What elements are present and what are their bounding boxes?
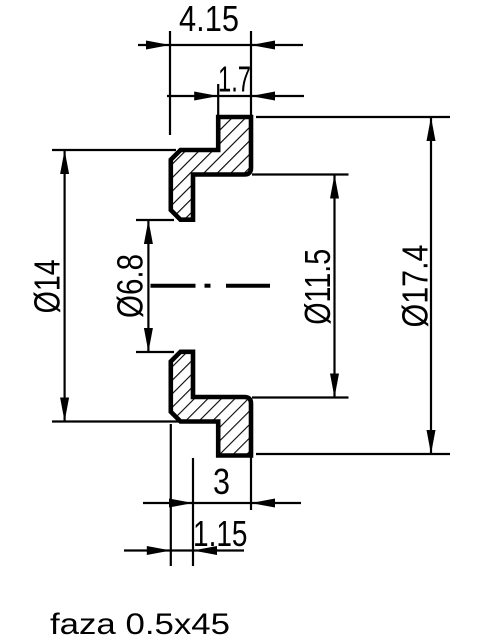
arrow phi14 up <box>60 150 69 174</box>
arrow 4.15 right <box>251 41 275 50</box>
arrow phi17.4 up <box>427 117 436 141</box>
svg-text:Ø14: Ø14 <box>27 259 68 313</box>
dimension 1.7 line <box>167 95 304 97</box>
svg-text:faza 0.5x45: faza 0.5x45 <box>50 608 230 640</box>
dimension phi11.5 line <box>333 175 335 398</box>
arrow 1.15 right <box>193 546 217 555</box>
dimension phi6.8 line <box>147 220 149 352</box>
svg-text:4.15: 4.15 <box>179 0 239 39</box>
arrow phi14 down <box>60 398 69 422</box>
arrow phi6.8 down <box>144 328 153 352</box>
arrow 1.15 left <box>147 546 171 555</box>
arrow 4.15 left <box>146 41 170 50</box>
svg-text:3: 3 <box>213 461 230 502</box>
extension line flange left (1.7) <box>217 84 219 115</box>
arrow phi6.8 up <box>144 220 153 244</box>
extension line phi6.8 bottom <box>136 351 174 353</box>
dimension phi17.4 line <box>430 117 432 454</box>
extension line right face (bottom) <box>250 452 252 510</box>
extension line phi17.4 top <box>256 116 450 118</box>
arrow 3 right <box>251 499 275 508</box>
extension line bore step (bottom) <box>192 458 194 566</box>
extension line left face (bottom) <box>170 424 172 566</box>
arrow 1.7 left <box>194 92 218 101</box>
arrow phi11.5 down <box>330 374 339 398</box>
extension line phi14 top <box>52 149 176 151</box>
extension line phi11.5 bottom <box>252 396 349 398</box>
extension line left face (top) <box>169 31 171 135</box>
svg-text:1.7: 1.7 <box>218 59 251 100</box>
lower cross-section (hatched) <box>171 352 251 456</box>
arrow phi17.4 down <box>427 430 436 454</box>
arrow 3 left <box>169 499 193 508</box>
extension line phi11.5 top <box>252 173 349 175</box>
dimension 1.15 line <box>124 549 244 551</box>
extension line phi14 bottom <box>52 420 179 422</box>
centerline <box>151 284 271 288</box>
extension line right face (top) <box>250 31 252 115</box>
dimension 4.15 line <box>138 44 303 46</box>
dimension 3 line <box>143 502 301 504</box>
upper cross-section (hatched) <box>171 117 251 220</box>
arrow phi11.5 up <box>330 175 339 199</box>
dimension phi14 line <box>63 150 65 422</box>
svg-text:1.15: 1.15 <box>193 513 248 554</box>
arrow 1.7 right <box>251 92 275 101</box>
svg-text:Ø17.4: Ø17.4 <box>395 245 436 328</box>
svg-text:Ø11.5: Ø11.5 <box>297 249 338 325</box>
extension line phi17.4 bottom <box>256 453 450 455</box>
extension line phi6.8 top <box>136 219 174 221</box>
svg-text:Ø6.8: Ø6.8 <box>110 254 151 318</box>
